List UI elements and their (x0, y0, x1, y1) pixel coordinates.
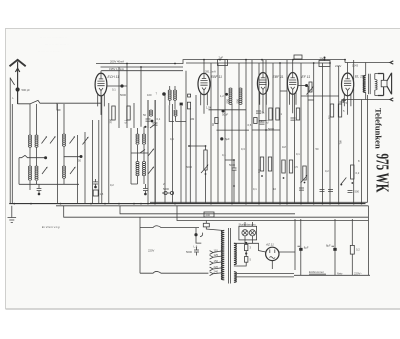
svg-text:EF 11: EF 11 (302, 75, 311, 79)
wire (265, 60, 267, 204)
wire (251, 60, 253, 204)
wire (77, 135, 79, 204)
wire (154, 100, 156, 204)
coil L9 (136, 162, 139, 164)
wire (210, 63, 212, 204)
resistor R13 (330, 104, 333, 117)
svg-text:281 2mA: 281 2mA (205, 70, 216, 74)
svg-text:500 pF: 500 pF (22, 88, 31, 92)
svg-text:10: 10 (273, 187, 276, 191)
wire (272, 63, 274, 204)
capacitor 5uF (220, 137, 223, 140)
wire (234, 251, 246, 266)
wire (57, 103, 61, 110)
svg-text:L.8: L.8 (194, 245, 198, 249)
grid cap wire (107, 85, 127, 87)
tube EBF11 V3 (257, 73, 268, 95)
capacitor C3 (93, 179, 98, 186)
fuse Si (203, 223, 209, 227)
svg-text:200V 40mA: 200V 40mA (110, 59, 124, 63)
core arrow 8 (148, 168, 153, 174)
svg-text:40: 40 (211, 123, 215, 126)
IF coil (168, 90, 171, 92)
ground bus 2 (56, 205, 368, 207)
svg-text:Netz: Netz (337, 271, 343, 275)
mains switch (140, 226, 199, 228)
svg-text:150: 150 (214, 259, 219, 263)
wire (133, 103, 135, 128)
junction (144, 126, 146, 128)
wire (56, 104, 58, 204)
wire (195, 95, 197, 204)
wire (322, 63, 324, 204)
core arrow 4 (70, 138, 75, 144)
svg-text:0,1: 0,1 (112, 88, 116, 92)
antenna (10, 60, 26, 104)
wire (19, 158, 79, 185)
output transformer core (368, 74, 370, 94)
IF coil b (173, 90, 176, 92)
resistor R16 (268, 157, 271, 171)
wire (353, 60, 355, 204)
tube ECH11 V1 (95, 73, 107, 96)
HT bus wire (96, 60, 345, 64)
wire (101, 96, 103, 204)
svg-text:240: 240 (214, 270, 219, 274)
wire (101, 70, 183, 72)
IF2 coil b (239, 88, 242, 90)
bus step wire 3 (177, 206, 368, 221)
wire (300, 63, 302, 204)
resistor R14 (338, 104, 341, 117)
wire (84, 132, 86, 204)
svg-text:500: 500 (355, 190, 360, 194)
svg-text:ECH 11: ECH 11 (108, 75, 120, 79)
wire (286, 60, 288, 204)
output transformer primary (363, 75, 366, 92)
resistor R2 (127, 106, 130, 120)
svg-text:.. ... .... ... .. ......: .. ... .... ... .. ...... .. (40, 35, 67, 39)
bottom rail (294, 274, 370, 276)
svg-text:AZ 11: AZ 11 (265, 243, 274, 247)
coupling box (294, 55, 302, 59)
wire (140, 67, 142, 127)
coil L6 (62, 166, 65, 168)
connector chevron 2 (390, 98, 393, 101)
svg-text:EBF 11: EBF 11 (211, 75, 222, 79)
svg-text:Telefunken: Telefunken (374, 108, 384, 149)
wire (338, 66, 340, 204)
svg-text:1,2: 1,2 (220, 94, 224, 98)
HT bus wire 2 (101, 63, 331, 67)
svg-text:... .. .. .... ... ... ..: ... .. .. .... ... ... .. (45, 42, 69, 46)
svg-text:300: 300 (109, 119, 113, 124)
wire (147, 100, 149, 128)
wire (180, 106, 182, 204)
wire (308, 99, 314, 101)
wire switch row (19, 155, 46, 157)
trimmer pair (164, 191, 167, 194)
mains wire (139, 217, 141, 273)
coil L3 (28, 166, 31, 168)
svg-text:0,1: 0,1 (327, 115, 331, 119)
wire (196, 228, 201, 243)
junction 50pF (222, 110, 225, 113)
wire (234, 243, 295, 269)
wire (217, 63, 219, 204)
ground bus (9, 203, 365, 205)
svg-text:0,5: 0,5 (294, 165, 298, 169)
wire (301, 95, 339, 97)
wire (245, 60, 247, 204)
svg-text:8µF: 8µF (304, 246, 309, 250)
coil L4 (35, 166, 38, 168)
capacitor C6 (153, 123, 158, 125)
wire (9, 78, 11, 204)
wire (189, 109, 191, 204)
capacitor Cif (180, 103, 183, 106)
output transformer secondary (375, 80, 377, 90)
wire (295, 206, 368, 275)
wire (252, 129, 280, 131)
svg-text:2µF: 2µF (219, 56, 224, 60)
resistor R1 (112, 106, 115, 120)
tap arrows (213, 251, 221, 253)
svg-text:0,1: 0,1 (222, 153, 226, 157)
ground symbol (8, 206, 17, 223)
core arrow 3 (42, 168, 47, 174)
wire (279, 63, 281, 204)
resistor field coil (350, 245, 354, 254)
capacitor C20 (320, 190, 325, 192)
wire (245, 222, 252, 243)
svg-text:110: 110 (214, 248, 219, 252)
heater lines (236, 273, 294, 277)
svg-text:EL 11: EL 11 (355, 75, 364, 79)
wire (217, 129, 250, 131)
wire (209, 109, 246, 111)
junction dots 2 (265, 129, 267, 131)
svg-text:50: 50 (78, 159, 81, 163)
wire grid link (298, 85, 307, 87)
switch contact (10, 78, 14, 85)
junction (162, 92, 166, 96)
small coil 2 (149, 110, 152, 112)
small coil (174, 110, 177, 112)
wave-range switch on antenna lead (18, 100, 101, 103)
capacitor block 2uF (218, 60, 228, 66)
resistor R12 (296, 108, 299, 120)
svg-text:0,1: 0,1 (296, 152, 300, 156)
svg-text:1,5k: 1,5k (206, 106, 212, 110)
tube EBF11 V2 (198, 73, 210, 94)
svg-text:220: 220 (214, 265, 219, 269)
wire (280, 90, 287, 92)
svg-text:5000: 5000 (120, 93, 126, 97)
core arrow 6 (70, 168, 75, 174)
wire (131, 128, 138, 184)
rectifier AZ11 (266, 247, 279, 260)
IF2 coil (229, 88, 232, 90)
svg-text:125: 125 (214, 253, 219, 257)
svg-text:0,2: 0,2 (110, 183, 114, 187)
wire (224, 60, 226, 204)
coil L5 (62, 134, 65, 136)
wire (98, 120, 100, 204)
svg-text:.. .... ... .. .. . ... .: .. .... ... .. .. . ... . (38, 49, 62, 53)
svg-text:0,5: 0,5 (248, 123, 252, 127)
connector chevron (390, 61, 393, 64)
power transformer HV secondary (234, 243, 236, 264)
bus step wire (64, 206, 369, 217)
wire (258, 63, 260, 204)
wire (164, 95, 166, 204)
wire (329, 63, 331, 204)
svg-text:0,2: 0,2 (325, 169, 329, 173)
mains capacitor 5000 (194, 247, 199, 256)
svg-text:Erdleitung: Erdleitung (42, 225, 60, 229)
wire (307, 86, 309, 204)
capacitor C4 (143, 184, 148, 193)
resistor R15 (260, 157, 263, 171)
svg-text:0,3: 0,3 (241, 147, 245, 151)
tap chevrons (210, 251, 214, 255)
switch contact (131, 150, 149, 154)
core arrow 7 (148, 150, 153, 156)
svg-text:0,3: 0,3 (257, 169, 261, 173)
wire (118, 67, 120, 128)
capacitor C11 (256, 111, 261, 113)
potentiometer P1 volume (204, 150, 207, 170)
svg-text:220V: 220V (148, 249, 154, 253)
resistor R19 (351, 165, 354, 179)
resistor R17 (282, 160, 285, 173)
potentiometer P2 (303, 166, 306, 180)
svg-text:1243: 1243 (352, 64, 358, 68)
wire (101, 60, 348, 74)
svg-text:100: 100 (147, 93, 152, 97)
tube EFM11 V4 (287, 73, 298, 95)
resistor R7 (215, 118, 218, 124)
svg-text:0,1: 0,1 (253, 187, 257, 191)
core arrow 5 (83, 138, 88, 145)
tone switch (341, 178, 346, 184)
resistor R18 (289, 160, 292, 173)
antenna capacitor 500pF (16, 87, 20, 91)
power transformer heater winding (234, 272, 236, 283)
coil L8 (142, 134, 145, 136)
svg-text:5000: 5000 (163, 187, 169, 191)
mains wire 2 (140, 271, 208, 273)
wire (231, 104, 233, 204)
capacitor C17 (232, 168, 237, 170)
coil L2 (35, 135, 38, 137)
speaker (378, 74, 384, 96)
capacitor C19 (348, 191, 353, 193)
svg-text:0,3: 0,3 (266, 119, 270, 123)
svg-text:240V: 240V (335, 64, 341, 68)
svg-text:EBF 11: EBF 11 (273, 75, 284, 79)
switch contact 2 (150, 124, 156, 128)
resistor R11 (276, 108, 279, 120)
core arrow (42, 138, 47, 144)
svg-text:TW: TW (339, 140, 343, 145)
wire (64, 156, 81, 158)
wire (225, 160, 234, 204)
capacitor C21 (299, 188, 304, 190)
svg-text:50: 50 (316, 147, 319, 151)
junction (44, 156, 47, 159)
wire (313, 63, 315, 204)
wire (108, 103, 110, 204)
svg-text:8µF: 8µF (326, 244, 331, 248)
capacitor block 20uF (319, 61, 330, 67)
wire (361, 100, 363, 204)
label 240 (204, 212, 214, 217)
svg-text:50pF: 50pF (222, 113, 228, 117)
svg-text:Skalenlampen: Skalenlampen (239, 222, 257, 226)
wire (30, 104, 37, 190)
resistor R10 (269, 108, 272, 120)
wire (11, 104, 13, 204)
potentiometer P3 (309, 82, 312, 92)
wire (238, 63, 240, 204)
svg-text:0,5: 0,5 (170, 137, 174, 141)
svg-text:975 WK: 975 WK (373, 154, 393, 193)
svg-text:5000: 5000 (186, 165, 192, 169)
svg-text:Entbrummer: Entbrummer (309, 270, 324, 274)
coil L7 (136, 134, 139, 136)
resistor Rlamp2 (245, 257, 248, 263)
svg-text:0,2: 0,2 (356, 171, 360, 175)
switch hook (200, 233, 203, 237)
wire (172, 104, 174, 204)
svg-text:50: 50 (143, 113, 146, 117)
svg-text:240: 240 (206, 213, 211, 217)
wire (126, 64, 128, 129)
trimmer cap (225, 93, 228, 96)
wire (185, 71, 187, 204)
wire (189, 146, 206, 204)
dial lamp box (239, 226, 257, 240)
power transformer core (229, 228, 231, 284)
component box (188, 94, 191, 97)
wire (294, 94, 296, 204)
svg-text:220V~: 220V~ (354, 271, 362, 275)
capacitor C13 (260, 122, 265, 124)
coil L1 (28, 135, 31, 137)
wire (367, 95, 369, 202)
svg-text:0,2: 0,2 (259, 119, 263, 123)
wire (342, 60, 391, 100)
svg-text:0,1: 0,1 (124, 119, 128, 123)
coil L10 (142, 162, 145, 164)
svg-text:0,1: 0,1 (157, 117, 161, 121)
dial lamp 2 (249, 230, 255, 236)
wire (92, 120, 94, 204)
filter cap 8uF (299, 248, 302, 251)
junction (80, 155, 83, 158)
capacitor C15 (342, 98, 346, 102)
trimmer box (93, 190, 98, 196)
svg-text:0,2: 0,2 (356, 248, 360, 252)
ground bus 3 (150, 201, 368, 203)
wire (259, 120, 266, 122)
core arrow 2 (50, 138, 55, 144)
bus step wire 2 (120, 206, 295, 214)
resistor R8 (254, 118, 257, 124)
resistor Rlamp (245, 245, 248, 251)
junction row dots (121, 85, 123, 87)
capacitor C5 (146, 119, 151, 121)
capacitor C2 (37, 184, 42, 193)
dial lamp 1 (242, 230, 248, 236)
svg-text:5µF: 5µF (225, 137, 230, 141)
power transformer primary (221, 230, 224, 279)
tube EL11 V5 (342, 73, 354, 96)
svg-text:5000: 5000 (186, 250, 192, 254)
svg-text:5000: 5000 (229, 163, 235, 167)
filter cap 8uF b (333, 248, 336, 251)
svg-text:550: 550 (236, 99, 240, 104)
svg-text:195V 1,7mA: 195V 1,7mA (109, 67, 124, 71)
svg-text:5000: 5000 (268, 127, 274, 131)
svg-text:550: 550 (226, 99, 230, 104)
resistor Rif (187, 102, 190, 109)
capacitor C22 (340, 100, 344, 104)
